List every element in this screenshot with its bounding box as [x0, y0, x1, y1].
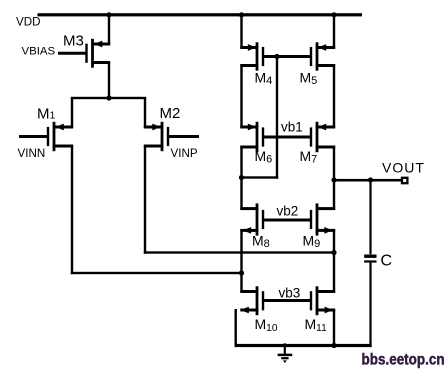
transistor M2 [144, 122, 199, 151]
wire M2 drain down [144, 145, 146, 254]
transistor M11 [310, 286, 335, 315]
wire M1 drain to M8 source node [71, 272, 243, 274]
wire M3 source to VDD [108, 13, 110, 45]
wire M5 drain to M7 source [333, 65, 335, 129]
junction on VDD at M3 [106, 12, 111, 17]
wire M3 drain to tail node [108, 63, 110, 100]
power rail VDD [38, 13, 363, 16]
svg-text:VBIAS: VBIAS [22, 46, 56, 58]
svg-text:VDD: VDD [16, 15, 40, 28]
wire M6 drain down [240, 146, 242, 179]
transistor M1 [19, 122, 73, 151]
junction M8 source / M1 drain [239, 270, 244, 275]
capacitor C [364, 255, 376, 263]
transistor M5 [310, 42, 335, 70]
wire M1 drain down [71, 145, 73, 274]
wire M2 drain to M9 source node [144, 251, 335, 253]
wire M9 source down [333, 229, 335, 253]
junction M9 source / M2 drain [331, 250, 336, 255]
wire tail node horizontal [71, 97, 146, 99]
junction on VDD at M4 [239, 12, 244, 17]
transistor M6 [240, 122, 264, 152]
svg-text:M3: M3 [63, 33, 84, 50]
wire capacitor to ground rail [369, 263, 371, 348]
svg-text:C: C [381, 253, 393, 270]
wire M2 source up to tail [144, 98, 146, 128]
wire M7 drain to VOUT node [333, 146, 335, 181]
transistor M4 [240, 42, 264, 70]
transistor M8 [240, 203, 264, 235]
wire M6 drain node to M8 drain [240, 178, 242, 211]
junction ground rail at M11 [331, 343, 336, 348]
svg-text:VINP: VINP [171, 147, 198, 160]
wire gate line M10-M11 net vb3 [262, 299, 312, 302]
wire VOUT node to M9 drain [333, 180, 335, 210]
wire M8 source node to M10 drain [240, 273, 242, 293]
wire VOUT node to capacitor [369, 180, 371, 254]
ground [278, 346, 293, 364]
wire M4 source to VDD [240, 13, 242, 48]
svg-text:bbs.eetop.cn: bbs.eetop.cn [362, 352, 445, 369]
wire gate line M6-M7 net vb1 [262, 136, 312, 139]
wire M8 source down [240, 229, 242, 274]
wire M1 source up to tail [71, 98, 73, 128]
terminal VOUT port [402, 178, 407, 183]
junction M6 drain node [239, 175, 244, 180]
svg-text:M2: M2 [160, 105, 181, 122]
ground rail [235, 344, 372, 347]
transistor M10 [240, 286, 264, 315]
wire VOUT line [334, 179, 402, 182]
transistor M3 [58, 39, 110, 68]
wire gate line M8-M9 net vb2 [262, 219, 312, 222]
wire M4 drain to M6 source [240, 65, 242, 129]
wire M9 source node to M11 drain [333, 253, 335, 293]
junction on VDD at M5 [331, 12, 336, 17]
junction ground rail at ground symbol [283, 343, 287, 347]
junction VOUT at M7 drain [331, 177, 336, 182]
transistor M9 [310, 203, 335, 235]
junction M4/M5 gates [274, 54, 279, 59]
wire M11 source to ground rail [333, 309, 335, 346]
svg-text:vb3: vb3 [279, 286, 301, 301]
svg-text:VINN: VINN [18, 147, 46, 160]
svg-text:vb2: vb2 [277, 203, 299, 218]
wire gate line M4-M5 [262, 55, 312, 58]
svg-text:VOUT: VOUT [382, 159, 425, 175]
wire M6 drain to M4/M5 gate junction [242, 57, 279, 179]
transistor M7 [310, 122, 335, 152]
junction tail node [106, 95, 111, 100]
junction VOUT capacitor tap [368, 177, 373, 182]
svg-text:vb1: vb1 [281, 119, 303, 134]
wire M5 source to VDD [333, 13, 335, 48]
wire M10 source to ground rail [235, 309, 237, 346]
